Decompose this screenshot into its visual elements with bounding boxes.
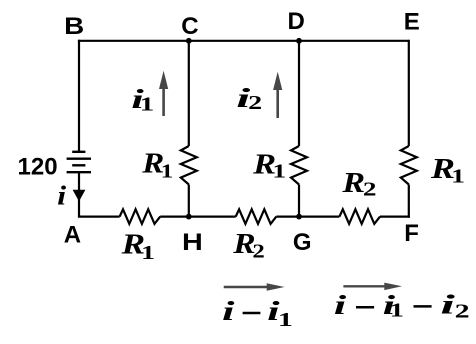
wire C down to R1 [188, 41, 190, 146]
svg-text:1: 1 [161, 161, 173, 183]
svg-text:i: i [440, 290, 455, 320]
annotation label i-i1-i2 [334, 290, 470, 323]
current label i2 [236, 83, 262, 114]
resistor R1 (C-H) [181, 146, 197, 185]
label R1 (D-G) [252, 149, 286, 183]
junction dot G [296, 214, 302, 220]
svg-text:1: 1 [390, 299, 404, 321]
svg-text:1: 1 [451, 166, 465, 188]
label R1 (E-F) [430, 153, 465, 188]
annotation arrow i-i1-i2 (right) [343, 283, 402, 291]
svg-text:R: R [341, 167, 365, 199]
wire B-C (top) [78, 40, 189, 42]
svg-text:2: 2 [248, 92, 262, 114]
wire A to R1 [78, 216, 120, 217]
svg-text:1: 1 [272, 161, 286, 183]
svg-text:H: H [182, 229, 203, 256]
svg-text:2: 2 [455, 301, 470, 323]
battery 120V [67, 152, 91, 172]
svg-text:i: i [57, 180, 67, 210]
wire B to battery top [78, 40, 80, 152]
wire R1 to F [408, 185, 410, 218]
svg-text:1: 1 [141, 242, 155, 264]
current arrow i (down) [73, 190, 86, 202]
svg-text:G: G [293, 229, 312, 256]
svg-text:120: 120 [18, 153, 58, 180]
svg-text:C: C [181, 13, 198, 40]
label R1 (A-H) [120, 229, 155, 264]
resistor R2 (H-G) [236, 209, 277, 224]
annotation arrow i-i1 (right) [224, 283, 285, 291]
svg-text:2: 2 [363, 179, 377, 201]
wire D-E (top) [299, 40, 409, 42]
svg-text:B: B [64, 13, 84, 40]
junction dot H [186, 214, 192, 220]
wire E down to R1 [408, 40, 410, 146]
wire C-D (top) [189, 40, 299, 42]
resistor R1 (D-G) [291, 146, 307, 185]
label R1 (C-H) [141, 148, 173, 183]
wire R1 to H [160, 216, 236, 218]
svg-text:A: A [64, 221, 81, 248]
svg-text:1: 1 [140, 94, 155, 116]
svg-text:2: 2 [252, 241, 264, 263]
annotation label i-i1 [222, 296, 293, 331]
wire R1 to G [298, 185, 300, 217]
current arrow i2 (up) [273, 72, 282, 118]
label R2 (H-G) [232, 228, 265, 263]
svg-text:i: i [334, 290, 347, 320]
resistor R2 (G-F) [339, 209, 380, 224]
resistor R1 (E-F) [401, 146, 417, 185]
wire R2 to G [276, 216, 339, 218]
label R2 (G-F) [341, 167, 376, 200]
junction dot C [186, 38, 192, 44]
svg-text:1: 1 [278, 309, 293, 331]
svg-text:D: D [288, 8, 305, 35]
svg-text:E: E [404, 9, 420, 36]
svg-text:F: F [404, 220, 419, 247]
wire D down to R1 [298, 41, 300, 146]
resistor R1 (A-H) [120, 209, 161, 224]
current label i1 [131, 84, 154, 116]
wire battery to A [78, 172, 80, 216]
junction dot D [296, 38, 302, 44]
wire R1 to H [188, 185, 190, 217]
svg-text:i: i [222, 296, 235, 326]
wire R2 to F [380, 216, 410, 218]
current arrow i1 (up) [159, 71, 168, 116]
